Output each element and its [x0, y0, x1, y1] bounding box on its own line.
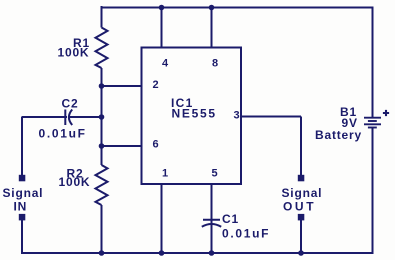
wire C2 right lead: [69, 116, 102, 118]
node C2 / left column: [99, 114, 105, 120]
svg-text:C2: C2: [62, 97, 79, 111]
node pin6 / left column: [99, 143, 105, 149]
wire R2 bottom lead: [101, 205, 103, 253]
svg-text:3: 3: [234, 110, 240, 122]
node ground rail pin1: [159, 250, 165, 256]
wire pin 3 horizontal: [241, 116, 301, 118]
svg-text:IN: IN: [14, 200, 28, 214]
capacitor C1 bottom curved plate: [202, 224, 221, 227]
wire signal-out lower drop: [300, 220, 302, 253]
wire R1 top lead: [101, 6, 103, 28]
svg-text:100K: 100K: [59, 175, 91, 189]
svg-text:0.01uF: 0.01uF: [39, 127, 87, 141]
capacitor C1 top plate: [203, 219, 220, 221]
capacitor C2 right curved plate: [69, 110, 72, 126]
svg-text:6: 6: [153, 139, 159, 151]
wire bottom rail: [21, 252, 374, 254]
wire pin 4 to rail: [161, 7, 163, 48]
capacitor C2 left plate: [64, 110, 66, 126]
terminal signal-out upper: [298, 175, 305, 182]
battery plus sign: [383, 110, 389, 116]
wire signal-in drop: [21, 117, 23, 176]
battery B1 short plate 2: [368, 127, 377, 129]
node top rail pin4: [159, 5, 165, 11]
wire signal-in lower drop: [21, 220, 23, 254]
wire pin 2 stub: [101, 85, 142, 87]
svg-text:NE555: NE555: [172, 107, 217, 121]
svg-text:Battery: Battery: [315, 128, 362, 142]
wire C1 bottom lead: [211, 224, 213, 253]
wire pin 1 to ground rail: [161, 184, 163, 253]
wire pin 5 to C1: [211, 184, 213, 224]
svg-text:OUT: OUT: [283, 200, 316, 214]
svg-text:0.01uF: 0.01uF: [222, 227, 270, 241]
wire battery bottom to ground rail: [372, 128, 374, 255]
svg-text:8: 8: [212, 58, 218, 70]
terminal signal-in upper: [19, 175, 26, 182]
node ground rail signal-out: [298, 250, 304, 256]
node ground rail C1: [209, 250, 215, 256]
op-amp/timer IC1 body: [142, 48, 242, 185]
wire pin 6 stub: [101, 145, 142, 147]
resistor R1: [96, 28, 108, 69]
node top rail pin8: [209, 5, 215, 11]
node ground rail R2: [99, 250, 105, 256]
svg-text:100K: 100K: [58, 46, 90, 60]
svg-text:Signal: Signal: [282, 186, 323, 200]
svg-text:4: 4: [162, 58, 169, 70]
battery B1 long plate 2: [364, 123, 381, 125]
wire C2 left lead: [22, 116, 67, 118]
battery B1 short plate 1: [368, 120, 377, 122]
wire right branch to battery top: [372, 7, 374, 118]
wire pin 3 drop to signal-out: [300, 117, 302, 176]
svg-text:C1: C1: [222, 212, 239, 226]
node R1 bottom / pin2: [99, 83, 105, 89]
wire pin 8 to rail: [211, 7, 213, 48]
battery B1 long plate 1: [364, 117, 381, 119]
resistor R2: [96, 165, 108, 205]
svg-text:5: 5: [212, 168, 218, 180]
wire left column R1 bottom to R2 top: [101, 68, 103, 165]
svg-text:2: 2: [153, 79, 159, 91]
terminal signal-in lower: [19, 214, 26, 221]
svg-text:Signal: Signal: [3, 186, 44, 200]
svg-text:1: 1: [162, 168, 168, 180]
terminal signal-out lower: [298, 214, 305, 221]
wire top rail (V+): [101, 7, 374, 9]
